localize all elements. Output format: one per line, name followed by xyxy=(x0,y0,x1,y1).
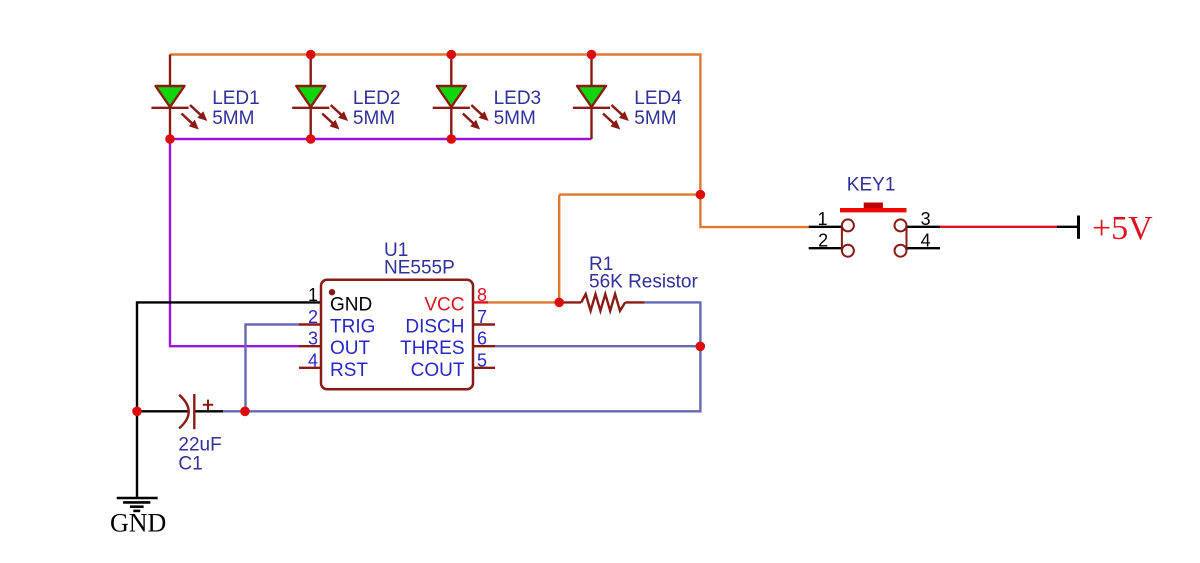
svg-text:LED3: LED3 xyxy=(494,88,542,109)
svg-text:RST: RST xyxy=(330,360,368,381)
svg-text:5MM: 5MM xyxy=(494,108,536,129)
svg-text:4: 4 xyxy=(921,231,931,251)
svg-text:2: 2 xyxy=(818,231,828,251)
svg-text:COUT: COUT xyxy=(411,360,465,381)
svg-text:7: 7 xyxy=(477,307,487,327)
svg-text:1: 1 xyxy=(308,285,318,305)
svg-text:22uF: 22uF xyxy=(178,435,221,456)
svg-text:1: 1 xyxy=(817,209,827,229)
svg-text:56K Resistor: 56K Resistor xyxy=(589,271,698,292)
svg-text:3: 3 xyxy=(921,209,931,229)
svg-text:+5V: +5V xyxy=(1092,210,1153,247)
svg-text:VCC: VCC xyxy=(424,294,464,315)
svg-text:GND: GND xyxy=(330,294,372,315)
svg-text:5: 5 xyxy=(477,350,487,370)
svg-text:5MM: 5MM xyxy=(353,108,395,129)
svg-text:C1: C1 xyxy=(178,454,202,475)
svg-text:THRES: THRES xyxy=(400,338,464,359)
svg-text:LED4: LED4 xyxy=(634,88,682,109)
svg-text:TRIG: TRIG xyxy=(330,317,375,338)
svg-text:8: 8 xyxy=(477,285,487,305)
svg-text:OUT: OUT xyxy=(330,338,371,359)
svg-text:6: 6 xyxy=(477,329,487,349)
svg-text:5MM: 5MM xyxy=(212,108,254,129)
svg-text:4: 4 xyxy=(308,350,318,370)
svg-text:NE555P: NE555P xyxy=(384,258,455,279)
svg-text:GND: GND xyxy=(110,509,166,538)
svg-text:DISCH: DISCH xyxy=(405,317,464,338)
svg-text:LED1: LED1 xyxy=(212,88,260,109)
svg-text:5MM: 5MM xyxy=(634,108,676,129)
svg-text:KEY1: KEY1 xyxy=(847,174,896,195)
svg-text:3: 3 xyxy=(308,329,318,349)
svg-text:LED2: LED2 xyxy=(353,88,401,109)
svg-text:2: 2 xyxy=(308,307,318,327)
